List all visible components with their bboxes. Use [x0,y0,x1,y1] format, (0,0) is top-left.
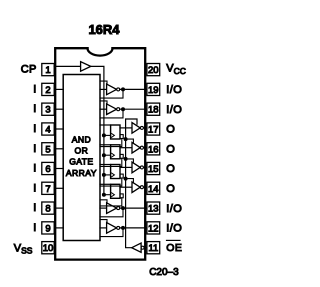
pin 8 box [42,202,54,214]
wire inverter output to pin 13 [120,207,147,209]
pin 5 box [42,143,54,155]
junction clock bus to FF17 [102,133,106,137]
clock wedge FF14 [112,193,115,197]
wire clock bus from buffer down to registers [91,66,104,194]
svg-text:10: 10 [43,243,54,254]
svg-text:I/O: I/O [166,104,182,116]
inverter bubble pin 15 [140,166,143,169]
svg-text:19: 19 [148,85,159,96]
wire pin 5 input stub to array [56,148,63,150]
svg-text:ARRAY: ARRAY [66,168,97,178]
IC body outline with pin-1 notch [55,48,145,259]
pin-1 end notch (half ellipse) [88,48,113,55]
wire array product line to inverter pin 18 [100,108,107,110]
svg-text:I: I [33,123,36,135]
tri-state inverter pin 19 [107,84,117,95]
wire inverter output to pin 16 [144,147,147,149]
svg-text:I/O: I/O [166,203,182,215]
wire feedback from pin 12 to array [100,228,123,237]
pin 14 box [147,182,160,194]
tri-state inverter pin 13 [107,203,117,214]
pin 15 box [147,162,160,174]
Q-bar output stage box FF16 [120,154,123,158]
wire pin 6 input stub to array [56,168,63,170]
pin 17 box [147,123,160,135]
Q-bar output stage box FF14 [120,194,123,198]
wire OE bus up right side to register output enables [126,119,137,248]
svg-text:9: 9 [45,223,50,234]
junction clock bus to FF16 [102,153,106,157]
svg-text:I: I [33,83,36,95]
svg-text:15: 15 [148,164,159,175]
wire array product line to inverter pin 19 [100,88,107,90]
svg-text:OE: OE [166,242,182,254]
OE input buffer A2 [132,243,141,252]
wire OE stub to inverter pin 15 [126,159,134,164]
pin 2 box [42,83,54,95]
pin 1 box [42,64,54,76]
wire array product line to inverter pin 13 [100,207,107,209]
svg-text:O: O [166,144,175,156]
wire array sum term to D input FF14 [100,183,111,185]
wire OE stub to inverter pin 16 [126,139,134,144]
wire clock stub to FF16 [104,154,111,156]
svg-text:I: I [33,202,36,214]
clock wedge FF16 [112,153,115,157]
wire FF16 Q to output inverter [120,147,132,149]
junction node feedback pin 12 [121,226,125,230]
pin 16 box [147,143,160,155]
Q-bar output stage box FF17 [120,135,123,139]
wire pin 4 input stub to array [56,128,63,130]
pin 12 box [147,222,160,234]
wire FF15 feedback to array [100,178,122,186]
svg-text:6: 6 [45,164,50,175]
pin 19 box [147,83,160,95]
svg-text:20: 20 [148,65,159,76]
junction node feedback pin 18 [121,107,125,111]
svg-text:4: 4 [45,125,50,136]
wire pin 11 to OE buffer [144,247,147,249]
wire enable product term pin 18 [100,101,107,105]
wire array product line to inverter pin 12 [100,227,107,229]
wire FF15 Q to output inverter [120,166,132,168]
svg-text:C20–3: C20–3 [149,267,179,278]
wire enable product term pin 13 [100,200,107,204]
pin 13 box [147,202,160,214]
svg-text:14: 14 [148,184,159,195]
svg-text:VSS: VSS [14,242,33,255]
junction node feedback pin 13 [121,206,125,210]
junction OE bus row 17 [124,137,128,141]
wire inverter output to pin 18 [120,108,147,110]
tri-state output inverter pin 14 [132,182,140,193]
tri-state output inverter pin 15 [132,162,140,173]
svg-text:16: 16 [148,144,159,155]
pin 6 box [42,162,54,174]
svg-text:O: O [166,163,175,175]
wire FF14 Q to output inverter [120,186,132,188]
wire feedback from pin 18 to array [100,109,123,118]
svg-text:I: I [33,103,36,115]
wire FF17 Q to output inverter [120,127,132,129]
wire pin 7 input stub to array [56,187,63,189]
D flip-flop FF17 [111,125,120,139]
array label text [66,135,97,178]
inverter bubble pin 13 [117,207,120,210]
overline for OE label [167,239,181,241]
junction OE bus row 15 [124,177,128,181]
wire inverter output to pin 14 [144,186,147,188]
svg-text:I/O: I/O [166,84,182,96]
wire inverter output to pin 19 [120,88,147,90]
inverter bubble pin 17 [140,126,143,129]
svg-text:GATE: GATE [69,157,93,167]
svg-text:7: 7 [45,184,50,195]
svg-text:2: 2 [45,85,50,96]
inverter bubble pin 19 [117,88,120,91]
wire pin1 CP to clock buffer [54,65,80,67]
clock wedge FF15 [112,173,115,177]
pin 7 box [42,182,54,194]
svg-text:8: 8 [45,204,50,215]
pin 20 box [147,64,160,76]
pin 3 box [42,103,54,115]
wire clock stub to FF15 [104,174,111,176]
wire pin 3 input stub to array [56,108,63,110]
pin 4 box [42,123,54,135]
svg-text:CP: CP [21,64,37,76]
junction node feedback pin 19 [121,87,125,91]
wire array sum term to D input FF17 [100,124,111,126]
inverter bubble pin 14 [140,186,143,189]
clock input buffer A1 [81,62,91,72]
svg-text:I: I [33,182,36,194]
wire clock stub to FF17 [104,134,111,136]
wire enable product term pin 12 [100,220,107,224]
svg-text:5: 5 [45,144,50,155]
D flip-flop FF14 [111,184,120,198]
svg-text:17: 17 [148,125,159,136]
junction OE bus row 16 [124,157,128,161]
wire feedback from pin 19 to array [100,89,123,98]
svg-text:3: 3 [45,105,50,116]
inverter bubble pin 16 [140,146,143,149]
wire inverter output to pin 12 [120,227,147,229]
pin 18 box [147,103,160,115]
Q-bar output stage box FF15 [120,174,123,178]
wire pin 2 input stub to array [56,88,63,90]
svg-text:I: I [33,222,36,234]
tri-state output inverter pin 16 [132,142,140,153]
wire array sum term to D input FF16 [100,144,111,146]
junction clock bus to FF14 [102,193,106,197]
junction clock bus to FF15 [102,173,106,177]
AND/OR gate array block U-array [63,75,100,241]
wire enable product term pin 19 [100,81,107,85]
svg-text:I: I [33,163,36,175]
svg-text:OR: OR [75,146,89,156]
svg-text:AND: AND [72,135,91,145]
wire inverter output to pin 15 [144,166,147,168]
clock wedge FF17 [112,134,115,138]
svg-text:12: 12 [148,223,159,234]
svg-text:11: 11 [148,243,158,254]
svg-text:O: O [166,124,175,136]
inverter bubble pin 12 [117,226,120,229]
wire clock stub to FF14 [104,194,111,196]
pin 9 box [42,222,54,234]
wire inverter output to pin 17 [144,127,147,129]
svg-text:O: O [166,183,175,195]
wire pin 8 input stub to array [56,207,63,209]
pin 11 box [147,242,160,254]
pin 10 box [42,242,54,254]
wire pin 9 input stub to array [56,227,63,229]
svg-text:18: 18 [148,105,159,116]
tri-state inverter pin 18 [107,104,117,115]
svg-text:I: I [33,143,36,155]
OE buffer inverting bubble [141,246,144,249]
wire FF17 feedback to array [100,139,122,147]
wire OE stub to inverter pin 14 [126,179,134,184]
svg-text:13: 13 [148,204,159,215]
wire feedback from pin 13 to array [100,208,123,217]
wire FF16 feedback to array [100,158,122,166]
inverter bubble pin 18 [117,108,120,111]
svg-text:VCC: VCC [166,63,186,76]
svg-text:I/O: I/O [166,223,182,235]
wire array sum term to D input FF15 [100,164,111,166]
svg-text:16R4: 16R4 [88,22,120,37]
D flip-flop FF16 [111,145,120,159]
svg-text:1: 1 [45,65,50,76]
tri-state output inverter pin 17 [132,123,140,134]
wire FF14 feedback to array [100,198,122,206]
D flip-flop FF15 [111,165,120,179]
tri-state inverter pin 12 [107,223,117,234]
